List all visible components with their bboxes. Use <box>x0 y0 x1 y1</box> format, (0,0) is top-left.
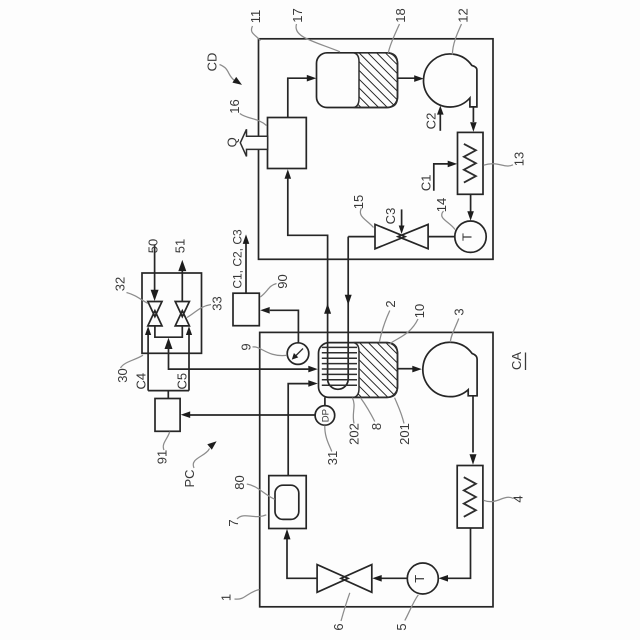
svg-text:30: 30 <box>115 368 130 382</box>
wire DP to box 91 <box>190 414 315 416</box>
down arrow on supply leg <box>345 295 352 305</box>
heat exchanger 13 box <box>458 132 484 194</box>
svg-text:16: 16 <box>227 99 242 113</box>
svg-text:Q: Q <box>225 137 240 147</box>
svg-text:201: 201 <box>397 423 412 445</box>
arrow into T14 top <box>467 211 474 221</box>
svg-text:2: 2 <box>383 300 398 307</box>
C2 wire arrow to fan 12 <box>439 113 441 131</box>
wire box7 top to HX2 lower inlet <box>288 384 309 476</box>
svg-text:PC: PC <box>182 469 197 487</box>
box 1 (CA enclosure) <box>260 332 493 606</box>
heat exchanger 2 outer rounded rect <box>319 343 398 398</box>
supply line 50 into valve 32 <box>154 245 156 293</box>
arrow upper inlet into HX2 <box>308 366 318 373</box>
svg-text:DP: DP <box>320 409 331 422</box>
arrow into valve 6 right <box>372 575 382 582</box>
svg-text:91: 91 <box>155 450 170 464</box>
wire T14 to valve 15 <box>428 236 455 238</box>
merge bar C4/C5 <box>148 390 189 392</box>
arrow into fan 3 <box>412 366 422 373</box>
fan 12 outlet wire <box>472 107 474 122</box>
svg-text:1: 1 <box>219 594 234 601</box>
svg-text:13: 13 <box>512 152 527 166</box>
arrow into box16 bottom <box>285 169 292 179</box>
differential pressure sensor DP 31 <box>315 406 335 426</box>
svg-text:202: 202 <box>347 423 362 445</box>
svg-text:C1, C2, C3: C1, C2, C3 <box>230 229 244 289</box>
Q hollow arrow <box>240 129 267 156</box>
svg-text:11: 11 <box>248 10 263 24</box>
arrow into box 91 right <box>181 411 191 418</box>
svg-text:90: 90 <box>275 274 290 288</box>
svg-text:5: 5 <box>394 623 409 630</box>
heat exchanger 4 zigzag coil <box>464 477 476 517</box>
wire HX4 down to T5 <box>448 528 471 578</box>
exhaust line 51 from valve 33 <box>181 270 183 302</box>
svg-text:51: 51 <box>173 239 188 253</box>
arrow into HX4 top <box>470 454 477 465</box>
valve 6 (expansion valve bowtie) <box>317 565 372 593</box>
svg-text:T: T <box>412 575 427 583</box>
feed arrow into U-connector <box>165 338 173 349</box>
air sample wire from U to HX2 upper inlet <box>169 346 310 369</box>
svg-text:4: 4 <box>511 495 526 502</box>
box 90 (controller) <box>233 293 259 326</box>
fins of HX 8 (left section) <box>322 347 357 385</box>
wire riser box16 to 17 <box>288 78 308 117</box>
svg-text:14: 14 <box>434 198 449 212</box>
component 201 hatched section of HX2 <box>354 343 398 398</box>
box 91 (sensor unit) <box>155 399 180 432</box>
svg-text:C3: C3 <box>383 208 398 225</box>
svg-text:17: 17 <box>290 8 305 22</box>
pressure gauge 9 circle <box>287 343 309 365</box>
arrow into T5 right <box>439 575 449 582</box>
svg-text:50: 50 <box>146 239 161 253</box>
wire valve6 to box 7 <box>287 538 317 578</box>
svg-text:C5: C5 <box>174 373 189 390</box>
C5 line from valve 33 <box>188 329 190 391</box>
DP stub to HX2 <box>324 397 326 405</box>
C1,C2,C3 output arrow from box 90 <box>245 244 247 294</box>
svg-text:C1: C1 <box>418 174 433 191</box>
heat exchanger 13 zigzag coil <box>464 144 476 183</box>
box 30 (valve unit) <box>142 273 202 353</box>
valve 15 (expansion valve bowtie) <box>375 224 428 248</box>
svg-text:C4: C4 <box>134 373 149 390</box>
svg-text:12: 12 <box>456 8 471 22</box>
component 17 plain/hatched dryer outer rounded rect <box>317 53 398 108</box>
wire valve15 to corner <box>348 236 375 238</box>
svg-text:32: 32 <box>113 277 128 291</box>
up arrow on return leg <box>324 304 331 314</box>
U-connector under valves <box>155 326 182 337</box>
fan 3 outlet wire <box>472 396 474 453</box>
temperature sensor T14 circle <box>455 221 486 252</box>
svg-text:7: 7 <box>226 519 241 526</box>
stub into box 91 <box>167 391 169 399</box>
svg-text:CD: CD <box>205 53 220 72</box>
arrow into HX 13 top <box>470 122 477 132</box>
arrow into 17 <box>307 75 317 82</box>
box 7 (humidifier housing) <box>269 476 306 529</box>
box 11 (CD enclosure) <box>259 39 494 259</box>
wire 17 to fan 12 <box>397 77 414 79</box>
svg-text:6: 6 <box>331 623 346 630</box>
C4 line from valve 32 <box>147 329 149 391</box>
svg-text:C2: C2 <box>424 113 439 130</box>
svg-text:10: 10 <box>412 304 427 318</box>
wire HX2 to fan 3 <box>397 368 412 370</box>
arrow into box7 bottom <box>284 529 291 540</box>
temperature sensor T5 circle <box>407 563 438 594</box>
svg-text:9: 9 <box>239 343 254 350</box>
fan 3 (blower circle with volute) <box>423 342 477 396</box>
wire T5 to valve 6 <box>382 577 408 579</box>
wire supply leg valve15 to HX2 <box>347 237 349 379</box>
svg-text:31: 31 <box>325 451 340 465</box>
heat exchanger 4 box <box>457 466 483 529</box>
arrow into fan 12 <box>414 75 424 82</box>
box 16 (heat output unit) <box>268 118 307 169</box>
arrow into box 90 <box>260 307 270 314</box>
svg-text:3: 3 <box>452 308 467 315</box>
fan 12 (blower circle with volute) <box>424 54 477 107</box>
arrow lower inlet into HX2 <box>308 380 318 387</box>
wire return leg HX2 to box16 <box>288 178 328 379</box>
component 18 hatched section <box>354 53 398 108</box>
svg-text:T: T <box>460 233 475 241</box>
svg-text:15: 15 <box>351 195 366 209</box>
wire gauge 9 riser to box 90 <box>270 310 299 343</box>
C3 wire arrow into valve 15 <box>401 209 403 226</box>
valve 33 (vertical bowtie) <box>175 302 189 326</box>
valve 32 (vertical bowtie) <box>148 302 162 326</box>
U-bend of coil in HX2 <box>328 379 349 389</box>
gauge 9 needle <box>295 349 304 358</box>
svg-text:18: 18 <box>393 8 408 22</box>
C1 wire arrow into HX13 <box>434 164 449 191</box>
svg-text:80: 80 <box>232 475 247 489</box>
rounded element 80 inside box 7 <box>275 485 299 519</box>
svg-text:8: 8 <box>369 423 384 430</box>
wire HX13 to T14 <box>470 194 472 211</box>
svg-text:33: 33 <box>210 296 225 310</box>
svg-text:CA: CA <box>509 352 524 370</box>
